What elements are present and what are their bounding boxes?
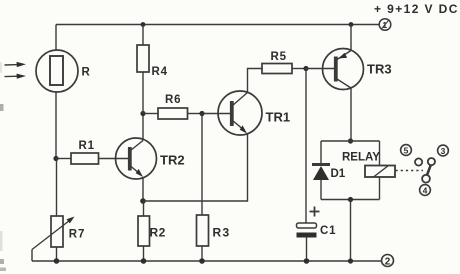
terminal 5 (401, 145, 412, 156)
svg-text:3: 3 (441, 146, 446, 156)
svg-text:R7: R7 (69, 229, 86, 241)
wire node down to C1 (305, 69, 307, 224)
wire TR1 collector to R5 (248, 69, 263, 93)
photoresistor R (LDR) (36, 50, 78, 92)
wire R1 left (56, 158, 71, 160)
label R5 (271, 51, 287, 63)
label R4 (152, 66, 168, 78)
wire node to TR1 base (202, 113, 231, 115)
label TR1 (266, 110, 291, 125)
wire LDR bottom to R1 node (55, 92, 57, 159)
node rail R2 (141, 258, 147, 264)
light arrow 2 (5, 74, 27, 79)
terminal 2 (382, 255, 394, 268)
svg-text:RELAY: RELAY (342, 152, 380, 164)
wire C1 bottom to rail (306, 238, 308, 262)
wire node down to R3 (201, 114, 203, 216)
R7 wiper arrow (32, 217, 75, 262)
svg-text:5: 5 (404, 145, 409, 155)
svg-text:R5: R5 (271, 51, 287, 63)
transistor TR1 (218, 91, 262, 135)
node rail relay (348, 258, 353, 263)
contact pole right (428, 158, 435, 165)
transistor TR2 (116, 138, 157, 179)
node rail R7 (54, 258, 60, 264)
diode D1 (312, 165, 330, 181)
wire dashed actuator link (396, 170, 424, 172)
svg-text:4: 4 (423, 185, 428, 195)
wire R4 bottom (142, 72, 144, 114)
switch lever (427, 165, 431, 175)
node relay bottom (348, 197, 353, 202)
node emitter bus / R2 (140, 198, 146, 204)
wire relay loop bottom (321, 199, 380, 201)
wire TR3 emitter to rail (350, 25, 352, 51)
svg-text:TR3: TR3 (367, 62, 392, 77)
light arrow 1 (5, 62, 27, 67)
wire node to R6 (143, 113, 158, 115)
transistor TR3 (PNP) (323, 49, 364, 90)
svg-text:D1: D1 (331, 168, 346, 180)
svg-text:R2: R2 (150, 226, 166, 240)
wire R5 to node (292, 68, 306, 70)
label D1 (331, 168, 346, 180)
svg-text:2: 2 (385, 256, 391, 267)
node R6 / TR1 base / R3 (199, 111, 204, 116)
wire TR3 collector down (350, 88, 352, 141)
scan smudges left edge (0, 62, 6, 271)
resistor R5 (262, 64, 292, 74)
wire node to TR3 base (306, 68, 335, 70)
node R4 top junction (141, 22, 146, 27)
resistor R7 (preset) (51, 216, 63, 247)
label RELAY (342, 152, 380, 164)
label TR3 (367, 62, 392, 77)
wire TR2 collector up (142, 114, 144, 141)
label R1 (79, 140, 95, 152)
node relay top (348, 138, 353, 143)
wire top supply rail (56, 24, 379, 26)
node rail R3 (199, 258, 205, 264)
terminal 4 (420, 185, 431, 196)
contact pole left (415, 158, 422, 165)
wire R4 top (142, 25, 144, 46)
resistor R2 (138, 216, 150, 246)
label C1 (320, 225, 336, 237)
terminal 3 (438, 145, 449, 156)
node R1 / LDR / R7 junction (53, 156, 58, 161)
svg-text:1: 1 (382, 20, 387, 30)
label TR2 (160, 153, 185, 168)
wire TR2 emitter down (142, 177, 144, 201)
label R3 (213, 226, 231, 240)
wire R7 bottom to rail (56, 247, 58, 261)
label R6 (165, 94, 181, 106)
wire R2 bottom to rail (143, 246, 145, 261)
wire relay loop left upper (320, 141, 322, 164)
wire emitter bus to TR1 emitter (143, 134, 248, 202)
label R (82, 67, 91, 79)
svg-text:R3: R3 (213, 226, 231, 240)
svg-text:R6: R6 (165, 94, 181, 106)
svg-text:+ 9+12 V DC: + 9+12 V DC (374, 2, 459, 16)
wire relay loop left lower (320, 180, 322, 200)
node R5 / TR3 base / C1 (303, 66, 308, 71)
label +9+12 V DC supply (374, 2, 459, 16)
resistor R1 (71, 153, 99, 164)
svg-text:R: R (82, 67, 91, 79)
label R2 (150, 226, 166, 240)
wire LDR top (55, 25, 57, 51)
svg-text:R1: R1 (79, 140, 95, 152)
label R7 (69, 229, 86, 241)
resistor R6 (158, 108, 188, 119)
wire relay loop right upper (379, 141, 381, 166)
wire bottom ground rail (32, 260, 382, 262)
node TR3 emitter rail junction (349, 22, 354, 27)
wire node to R7 top (56, 159, 58, 217)
svg-text:C1: C1 (320, 225, 336, 237)
wire R3 bottom to rail (201, 246, 203, 261)
svg-text:TR1: TR1 (266, 110, 291, 125)
wire R1 to TR2 base (99, 158, 129, 160)
resistor R3 (197, 215, 209, 246)
wire relay bottom to rail (350, 200, 352, 262)
svg-text:R4: R4 (152, 66, 168, 78)
node R4 / R6 / TR2 collector (140, 111, 145, 116)
wire relay loop top (321, 140, 380, 142)
wire R6 to node (188, 113, 203, 115)
wire relay loop right lower (379, 177, 381, 200)
node rail C1 (304, 258, 310, 264)
resistor R4 (137, 45, 149, 72)
svg-text:TR2: TR2 (160, 153, 185, 168)
wire R2 top (143, 201, 145, 216)
terminal 1 (379, 19, 391, 31)
capacitor C1 (297, 207, 320, 238)
contact common pivot (422, 175, 430, 183)
relay coil RELAY (365, 166, 395, 178)
